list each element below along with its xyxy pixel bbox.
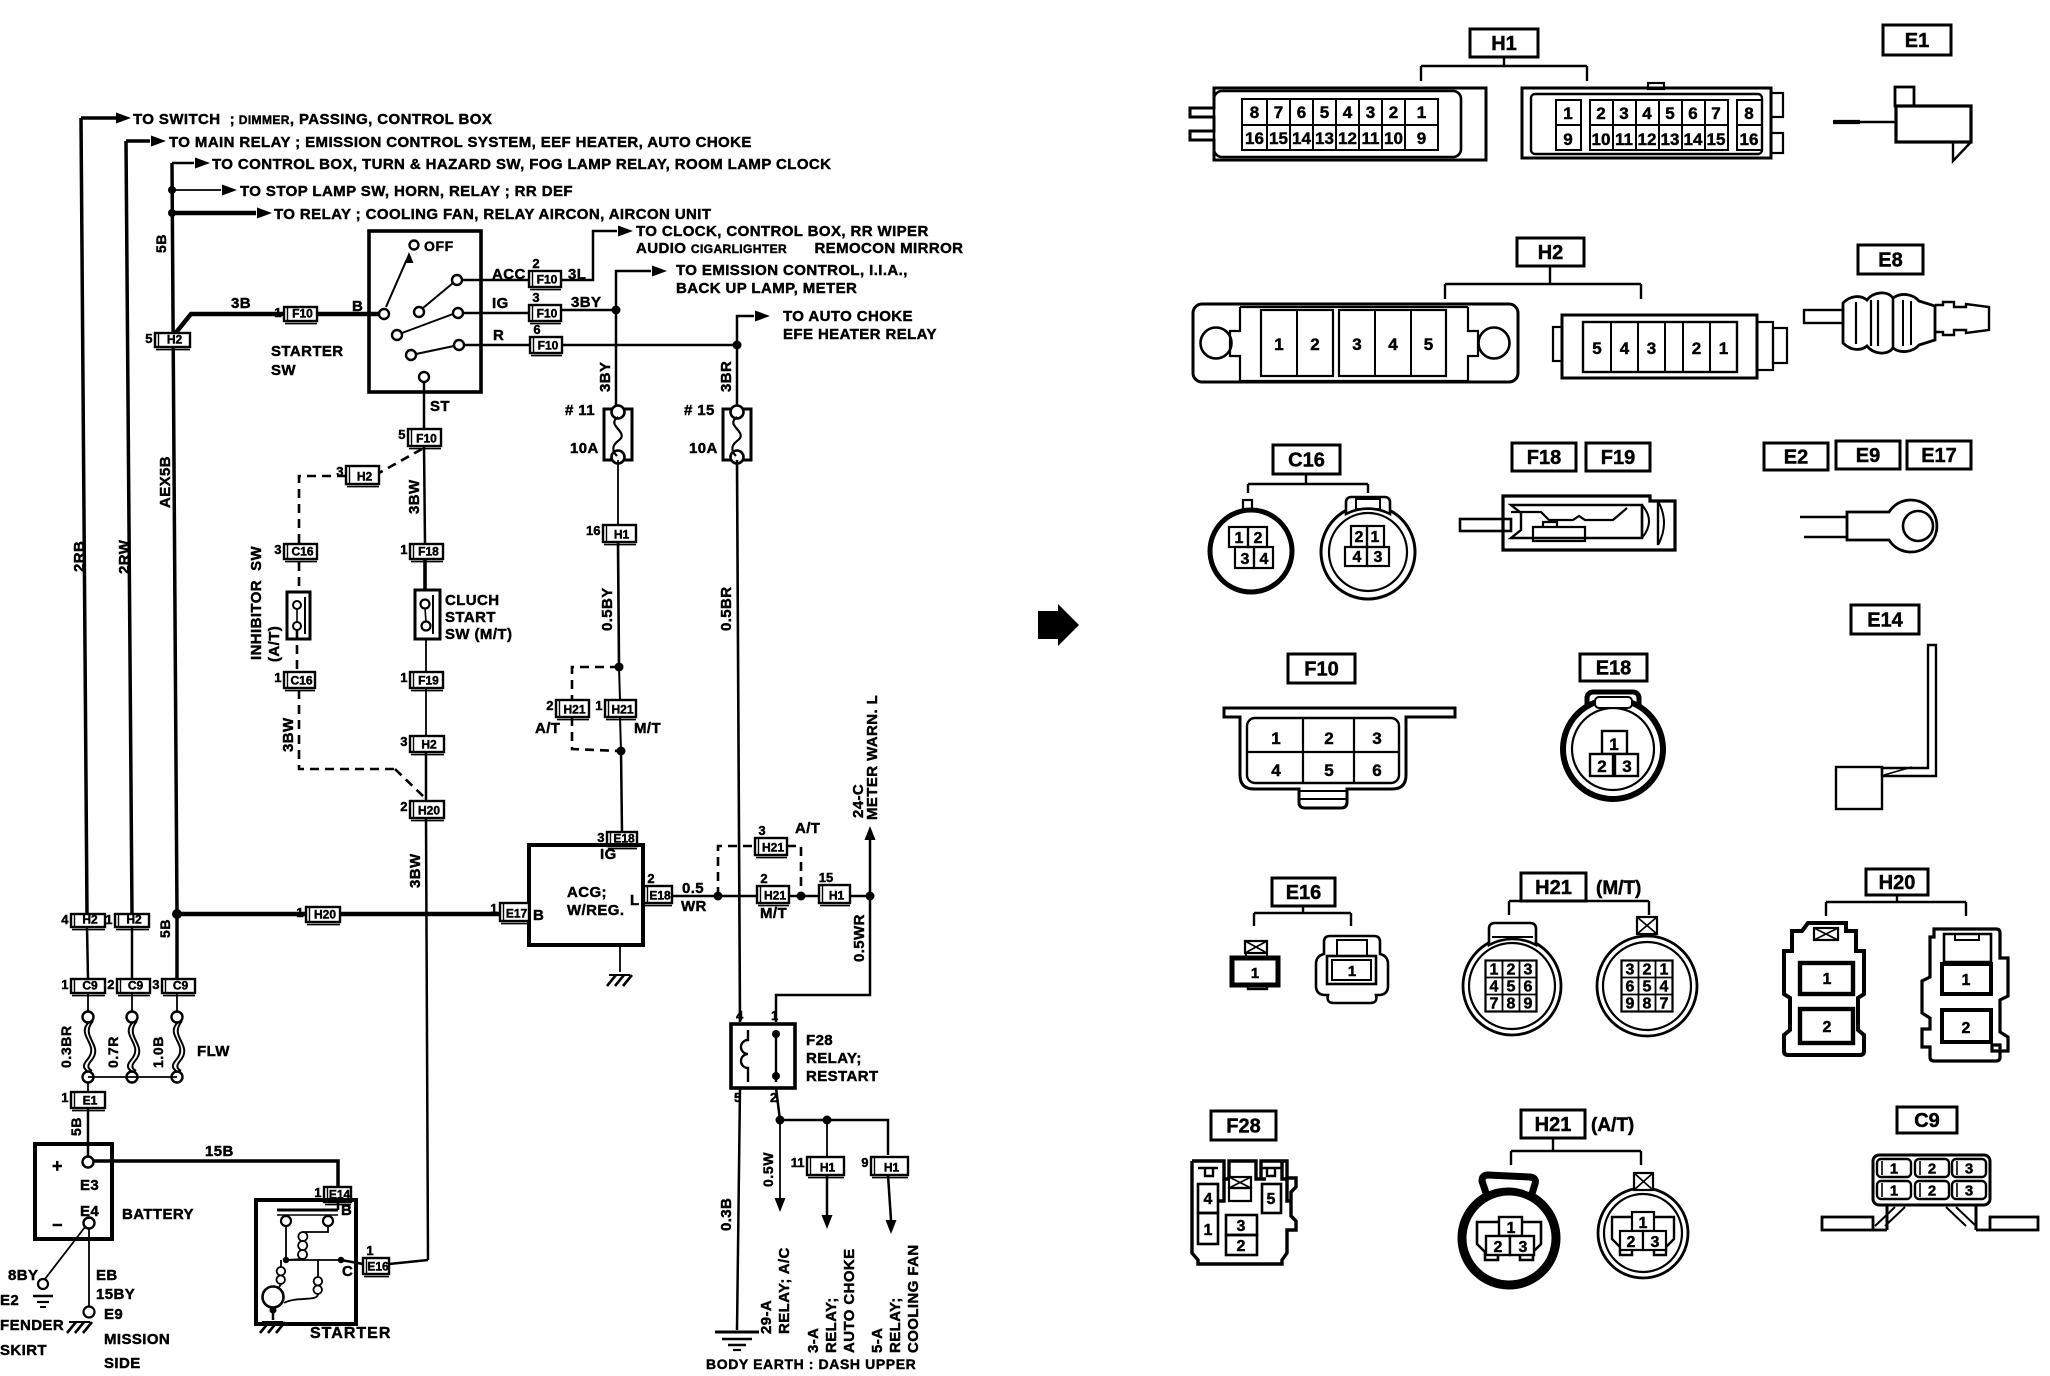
svg-text:E2: E2	[0, 1292, 19, 1309]
wire to H1 pin9 and arrow	[886, 1175, 897, 1234]
connector H21 AT right view	[1598, 1173, 1688, 1278]
svg-text:10: 10	[1384, 129, 1403, 148]
svg-text:6: 6	[1688, 104, 1697, 123]
svg-text:0.7R: 0.7R	[105, 1036, 121, 1068]
svg-text:3BY: 3BY	[597, 362, 614, 392]
wire H21 to H1	[789, 892, 819, 901]
svg-text:1: 1	[1890, 1183, 1898, 1200]
svg-text:1: 1	[1251, 965, 1259, 982]
svg-text:5B: 5B	[157, 919, 173, 938]
svg-text:2: 2	[1692, 339, 1701, 358]
connector C16 right view	[1321, 497, 1415, 599]
svg-text:3: 3	[1651, 1234, 1660, 1251]
connector C16 left view	[1210, 500, 1292, 592]
label 3BY vertical	[597, 362, 614, 392]
starter internal coils	[276, 1226, 344, 1303]
svg-text:2: 2	[1597, 757, 1606, 776]
wire F19 to H2	[425, 688, 427, 736]
label (A/T)	[1591, 1115, 1634, 1136]
svg-text:1: 1	[400, 542, 407, 557]
connector F18 pin1	[400, 542, 443, 562]
labels fusible links	[58, 1025, 230, 1068]
svg-text:F10: F10	[538, 339, 559, 353]
label box F28	[1211, 1111, 1276, 1140]
svg-text:E17: E17	[506, 907, 528, 921]
label TO RELAY COOLING FAN	[274, 206, 711, 223]
svg-text:H21: H21	[764, 889, 786, 903]
svg-text:E16: E16	[1286, 882, 1322, 904]
svg-text:E3: E3	[80, 1177, 99, 1194]
svg-text:H1: H1	[820, 1161, 836, 1175]
svg-text:METER WARN. L: METER WARN. L	[864, 695, 881, 820]
contact OFF	[410, 238, 454, 254]
svg-text:OFF: OFF	[424, 238, 454, 254]
wire to 0.5WR junction	[850, 892, 875, 901]
svg-text:3: 3	[1237, 1218, 1246, 1235]
connector H1 pin15	[819, 870, 850, 906]
svg-text:5: 5	[1592, 339, 1601, 358]
svg-text:1: 1	[1962, 972, 1971, 989]
fusible link 0.7R	[131, 993, 133, 1012]
wire ACC to fuse F10	[462, 226, 633, 281]
svg-text:2RB: 2RB	[71, 541, 88, 572]
wire 0.5BY H1 down to junction	[615, 542, 624, 672]
label 5-A RELAY COOLING FAN	[869, 1244, 922, 1353]
connector C9 pin1	[61, 977, 105, 996]
svg-text:R: R	[493, 327, 504, 344]
svg-text:# 15: # 15	[684, 402, 715, 419]
svg-text:5: 5	[1320, 103, 1329, 122]
svg-text:H2: H2	[82, 913, 98, 927]
svg-text:2: 2	[1389, 103, 1398, 122]
svg-text:1: 1	[1890, 1161, 1898, 1178]
svg-text:7: 7	[1274, 103, 1283, 122]
component ACG W/REG box	[529, 845, 643, 945]
svg-text:9: 9	[1524, 996, 1533, 1013]
node 5B label upper	[153, 234, 169, 253]
svg-text:ST: ST	[430, 398, 450, 415]
svg-text:8BY: 8BY	[8, 1267, 38, 1284]
svg-text:2: 2	[1324, 729, 1333, 748]
wire F18 to clutch sw thick	[423, 559, 427, 590]
svg-text:4: 4	[61, 912, 69, 927]
svg-text:10: 10	[1592, 130, 1611, 149]
svg-text:F10: F10	[292, 307, 313, 321]
label E2 FENDER SKIRT	[0, 1292, 64, 1359]
svg-text:2: 2	[532, 256, 539, 271]
wire joining links	[88, 1077, 177, 1092]
svg-text:6: 6	[1524, 979, 1533, 996]
starter B terminal bar	[277, 1202, 352, 1226]
svg-text:2: 2	[1310, 335, 1319, 354]
svg-text:1: 1	[274, 305, 281, 320]
svg-text:9: 9	[1626, 996, 1635, 1013]
svg-text:7: 7	[1490, 996, 1499, 1013]
label TO AUTO CHOKE	[783, 308, 937, 343]
contact R pair	[406, 340, 464, 360]
svg-text:5: 5	[398, 427, 405, 442]
connector H2 pin3 lower	[400, 734, 444, 755]
svg-text:3L: 3L	[568, 266, 586, 283]
svg-text:2: 2	[1355, 529, 1364, 546]
wire 8BY to fender skirt ground	[33, 1227, 85, 1307]
connector H2 right view	[1553, 315, 1787, 378]
svg-text:12: 12	[1338, 129, 1357, 148]
svg-text:5: 5	[1267, 1191, 1276, 1208]
connector C16 pin1	[274, 670, 315, 691]
contact ACC pair	[414, 275, 462, 317]
svg-text:3BW: 3BW	[407, 853, 424, 888]
svg-text:TO CONTROL BOX, TURN & HAZARD: TO CONTROL BOX, TURN & HAZARD SW, FOG LA…	[212, 156, 831, 173]
svg-text:SKIRT: SKIRT	[0, 1342, 47, 1359]
label box E14	[1851, 605, 1919, 634]
svg-text:4: 4	[1353, 549, 1362, 566]
svg-text:4: 4	[1490, 979, 1499, 996]
svg-text:15B: 15B	[205, 1143, 234, 1160]
svg-text:3: 3	[1519, 1239, 1528, 1256]
svg-text:4: 4	[1388, 335, 1398, 354]
svg-text:AUTO CHOKE: AUTO CHOKE	[841, 1248, 858, 1353]
svg-text:E1: E1	[83, 1094, 98, 1108]
wire bus 2RB vertical left	[81, 118, 87, 914]
connector E1 terminal	[1833, 87, 1971, 161]
svg-text:2: 2	[760, 871, 767, 886]
label BODY EARTH : DASH UPPER	[706, 1356, 916, 1372]
svg-text:2: 2	[1928, 1161, 1936, 1178]
label box E8	[1858, 245, 1923, 274]
svg-text:0.5BR: 0.5BR	[718, 586, 735, 631]
contact B with arrow to OFF	[379, 252, 414, 319]
svg-text:FLW: FLW	[197, 1043, 230, 1060]
connector H21 pin3 AT	[755, 823, 787, 858]
label STARTER	[310, 1325, 391, 1342]
contact IG pair	[392, 308, 463, 340]
connector H2 left view	[1193, 304, 1518, 382]
connector E1 pin1	[61, 1090, 105, 1111]
svg-text:3: 3	[1965, 1161, 1973, 1178]
bracket C16	[1248, 474, 1368, 493]
svg-text:4: 4	[1642, 104, 1652, 123]
label M/T below	[760, 905, 787, 922]
svg-text:1: 1	[1235, 530, 1244, 547]
svg-text:5: 5	[1665, 104, 1674, 123]
label 8BY	[8, 1267, 38, 1284]
svg-text:TO MAIN RELAY ; EMISSION CONTR: TO MAIN RELAY ; EMISSION CONTROL SYSTEM,…	[169, 134, 752, 151]
svg-text:FENDER: FENDER	[0, 1317, 64, 1334]
dashed wire A/T branch lower	[572, 717, 619, 751]
svg-text:TO SWITCH ; DIMMER, PASSING,: TO SWITCH ; DIMMER, PASSING, CONTROL BOX	[133, 111, 492, 128]
svg-text:8: 8	[1643, 996, 1652, 1013]
wire 0.5BY fuse11 to H1	[617, 460, 619, 525]
svg-text:RELAY;: RELAY;	[887, 1297, 904, 1353]
svg-text:13: 13	[1315, 129, 1334, 148]
wire to H1 pin11 and arrow	[822, 1120, 833, 1229]
fuse #15 10A	[723, 406, 751, 464]
svg-text:1: 1	[1609, 735, 1618, 754]
svg-text:2: 2	[1596, 104, 1605, 123]
label A/T right	[795, 820, 820, 837]
wire F28 pin2 down to junctions	[776, 1088, 889, 1155]
svg-text:29-A: 29-A	[758, 1300, 775, 1334]
label box E18	[1580, 654, 1647, 681]
dashed wire C16 to inhibitor	[297, 562, 299, 672]
switch box STARTER SW	[369, 231, 481, 392]
svg-text:B: B	[533, 907, 544, 924]
label R	[493, 327, 504, 344]
connector F10 pin2	[529, 256, 561, 290]
svg-text:F28: F28	[1226, 1116, 1260, 1138]
connector E14 bracket	[1836, 645, 1936, 809]
label 0.3B	[718, 1198, 735, 1231]
connector H21 pin2 AT	[619, 667, 620, 700]
svg-text:9: 9	[1563, 130, 1572, 149]
fuse #11 10A	[604, 406, 632, 464]
svg-text:W/REG.: W/REG.	[567, 902, 624, 919]
label IG 3BY	[492, 294, 601, 312]
svg-text:1: 1	[1371, 529, 1380, 546]
svg-text:(A/T): (A/T)	[1591, 1115, 1634, 1136]
svg-text:C16: C16	[290, 674, 312, 688]
svg-text:3: 3	[1366, 103, 1375, 122]
svg-text:4: 4	[1620, 339, 1630, 358]
svg-text:5: 5	[1424, 335, 1433, 354]
svg-text:F10: F10	[537, 307, 558, 321]
svg-text:3: 3	[1372, 729, 1381, 748]
connector H1 left view	[1190, 88, 1486, 160]
terminal E3	[83, 1157, 94, 1168]
svg-text:H1: H1	[1491, 33, 1517, 55]
connector F10 pin6	[530, 322, 562, 356]
svg-text:C9: C9	[82, 979, 98, 993]
svg-text:C9: C9	[1914, 1110, 1940, 1132]
svg-text:5-A: 5-A	[869, 1328, 886, 1353]
connector F18/F19 terminal	[1460, 496, 1675, 550]
svg-text:+: +	[52, 1156, 63, 1176]
svg-text:1: 1	[1274, 335, 1283, 354]
wire to auto choke arrow	[737, 311, 770, 346]
svg-text:H2: H2	[421, 738, 437, 752]
label ACC 3L	[492, 266, 586, 283]
label box H1	[1470, 29, 1538, 57]
svg-text:RELAY;: RELAY;	[823, 1297, 840, 1353]
switch box INHIBITOR SW	[287, 592, 310, 639]
svg-text:ACG;: ACG;	[567, 884, 607, 901]
bracket H21 AT	[1511, 1138, 1641, 1165]
wire H2 to H20	[425, 752, 428, 801]
svg-text:4: 4	[1204, 1191, 1213, 1208]
svg-text:9: 9	[861, 1155, 868, 1170]
svg-text:H20: H20	[314, 908, 336, 922]
connector H20 left view	[1784, 923, 1864, 1055]
label CLUCH START SW	[445, 592, 512, 643]
wire bus 2RW vertical	[126, 141, 132, 914]
label box H20	[1866, 869, 1928, 895]
svg-text:4: 4	[1271, 761, 1281, 780]
svg-text:TO CLOCK, CONTROL BOX, RR WIPE: TO CLOCK, CONTROL BOX, RR WIPER	[636, 223, 929, 240]
svg-text:8: 8	[1744, 104, 1753, 123]
svg-text:E16: E16	[367, 1260, 389, 1274]
svg-text:1: 1	[1348, 963, 1356, 980]
svg-text:2: 2	[1823, 1019, 1832, 1036]
svg-text:13: 13	[1661, 130, 1680, 149]
svg-text:11: 11	[1362, 129, 1380, 148]
svg-text:# 11: # 11	[565, 402, 595, 419]
svg-text:4: 4	[736, 1008, 744, 1023]
wire 3BW below H20 to E16 junction	[426, 818, 428, 1260]
label TO EMISSION CONTROL	[676, 262, 908, 297]
svg-text:2: 2	[1494, 1239, 1503, 1256]
svg-text:8: 8	[1250, 103, 1259, 122]
wire callout TO RELAY COOLING FAN	[168, 208, 272, 219]
svg-text:3: 3	[1374, 549, 1383, 566]
wire callout TO CONTROL BOX	[172, 158, 210, 169]
svg-text:RESTART: RESTART	[806, 1068, 879, 1085]
wire 0.5W arrow down	[775, 1120, 786, 1212]
svg-text:14: 14	[1684, 130, 1703, 149]
label BATTERY	[122, 1206, 194, 1223]
wire callout TO STOP LAMP SW	[168, 185, 237, 196]
connector F28 view	[1192, 1160, 1296, 1264]
svg-text:15BY: 15BY	[96, 1286, 135, 1303]
svg-text:IG: IG	[600, 846, 617, 863]
svg-text:E17: E17	[1921, 445, 1957, 467]
svg-text:12: 12	[1638, 130, 1657, 149]
svg-text:C9: C9	[173, 979, 189, 993]
svg-text:F28: F28	[806, 1032, 833, 1049]
svg-text:2: 2	[647, 871, 654, 886]
svg-text:B: B	[352, 298, 363, 315]
svg-text:2: 2	[1643, 962, 1652, 979]
svg-text:0.5WR: 0.5WR	[851, 914, 868, 962]
svg-text:3: 3	[1619, 104, 1628, 123]
svg-text:E1: E1	[1905, 30, 1929, 52]
svg-text:C16: C16	[291, 545, 313, 559]
svg-text:1: 1	[105, 912, 112, 927]
svg-text:1: 1	[400, 670, 407, 685]
svg-text:E18: E18	[649, 889, 671, 903]
svg-text:3B: 3B	[231, 295, 251, 312]
svg-text:TO STOP LAMP SW, HORN, RELAY ;: TO STOP LAMP SW, HORN, RELAY ; RR DEF	[240, 183, 573, 200]
label (M/T)	[1596, 878, 1641, 899]
wire clutch to F19	[425, 639, 427, 672]
svg-text:SW (M/T): SW (M/T)	[445, 626, 512, 643]
ground ACG	[607, 945, 632, 986]
svg-text:WR: WR	[681, 898, 707, 915]
ground starter	[260, 1308, 285, 1333]
svg-text:0.5: 0.5	[682, 880, 704, 897]
svg-text:RELAY;: RELAY;	[806, 1050, 862, 1067]
svg-text:3: 3	[1352, 335, 1361, 354]
connector H2 pin1b	[105, 912, 149, 930]
svg-text:6: 6	[1626, 979, 1635, 996]
svg-text:H21: H21	[611, 703, 633, 717]
connector H1 pin16	[586, 523, 636, 545]
dashed wire AT H21 branch	[718, 846, 801, 896]
svg-text:H20: H20	[418, 804, 440, 818]
svg-text:3: 3	[758, 823, 765, 838]
label 3BR vertical	[718, 361, 735, 392]
dashed wire H2 to C16	[299, 476, 346, 544]
label 24-C METER WARN. L	[850, 695, 881, 820]
svg-text:1: 1	[771, 1008, 778, 1023]
svg-text:6: 6	[1297, 103, 1306, 122]
svg-text:0.5W: 0.5W	[760, 1152, 776, 1187]
svg-text:M/T: M/T	[634, 720, 661, 737]
label TO CONTROL BOX	[212, 156, 831, 173]
svg-text:4: 4	[1660, 979, 1669, 996]
label EB 15BY	[96, 1267, 135, 1303]
svg-text:11: 11	[791, 1155, 805, 1170]
svg-text:1: 1	[61, 1090, 68, 1105]
svg-text:C16: C16	[1288, 450, 1325, 472]
node 2RW label	[116, 539, 133, 574]
svg-text:3BW: 3BW	[406, 479, 423, 514]
svg-text:3-A: 3-A	[805, 1328, 822, 1353]
connector H21 MT left view	[1463, 923, 1561, 1035]
connector H20 right view	[1922, 929, 2008, 1061]
svg-text:8: 8	[1507, 996, 1516, 1013]
connector H20 pin2	[400, 799, 444, 821]
svg-text:H21: H21	[1535, 1114, 1572, 1136]
contact ST	[419, 372, 429, 382]
svg-text:A/T: A/T	[535, 720, 560, 737]
label 3BW left branch	[280, 717, 297, 752]
svg-text:5: 5	[1507, 979, 1516, 996]
wire callout TO SWITCH	[81, 113, 131, 124]
svg-text:ACC: ACC	[492, 266, 526, 283]
terminal E4	[84, 1218, 95, 1229]
connector E16 left view	[1232, 941, 1278, 989]
svg-text:3: 3	[1626, 962, 1635, 979]
svg-text:B: B	[341, 1202, 352, 1219]
wire IG to fuse F10 and 3BY junction	[463, 306, 621, 315]
connector H2 pin5	[145, 331, 190, 350]
svg-text:5: 5	[1324, 761, 1333, 780]
svg-text:3: 3	[152, 977, 159, 992]
svg-text:INHIBITOR SW: INHIBITOR SW	[248, 545, 265, 660]
svg-text:3: 3	[1965, 1183, 1973, 1200]
label INHIBITOR SW (A/T)	[248, 545, 283, 662]
label STARTER SW	[271, 343, 344, 379]
relay F28 RESTART box	[731, 1024, 795, 1088]
label 3B	[231, 295, 363, 315]
svg-text:MISSION: MISSION	[104, 1331, 170, 1348]
label box H21 AT	[1521, 1110, 1585, 1138]
wire 0.5WR from E18 L out	[672, 892, 757, 901]
label box E9	[1836, 441, 1900, 469]
svg-text:2: 2	[400, 799, 407, 814]
label 5B at junction	[157, 919, 173, 938]
svg-text:3: 3	[1647, 339, 1656, 358]
svg-text:SIDE: SIDE	[104, 1355, 141, 1372]
svg-text:EB: EB	[96, 1267, 118, 1284]
svg-text:2: 2	[107, 977, 114, 992]
connector H1 right view	[1522, 83, 1783, 158]
fusible link 1.0B	[176, 993, 178, 1012]
label box H2	[1517, 238, 1584, 266]
connector H2 pin3 dashed branch	[336, 464, 379, 487]
label box H21 MT	[1521, 873, 1586, 901]
connector E18 pin2	[644, 871, 672, 906]
svg-text:5B: 5B	[68, 1117, 84, 1136]
wire 15B battery to E14	[94, 1161, 338, 1187]
svg-text:4: 4	[1260, 551, 1269, 568]
connector C16 pin3	[274, 542, 317, 562]
svg-text:4: 4	[1343, 103, 1353, 122]
svg-text:3BY: 3BY	[571, 294, 601, 311]
svg-text:TO RELAY ; COOLING FAN, RELAY: TO RELAY ; COOLING FAN, RELAY AIRCON, AI…	[274, 206, 711, 223]
svg-text:L: L	[630, 892, 640, 909]
